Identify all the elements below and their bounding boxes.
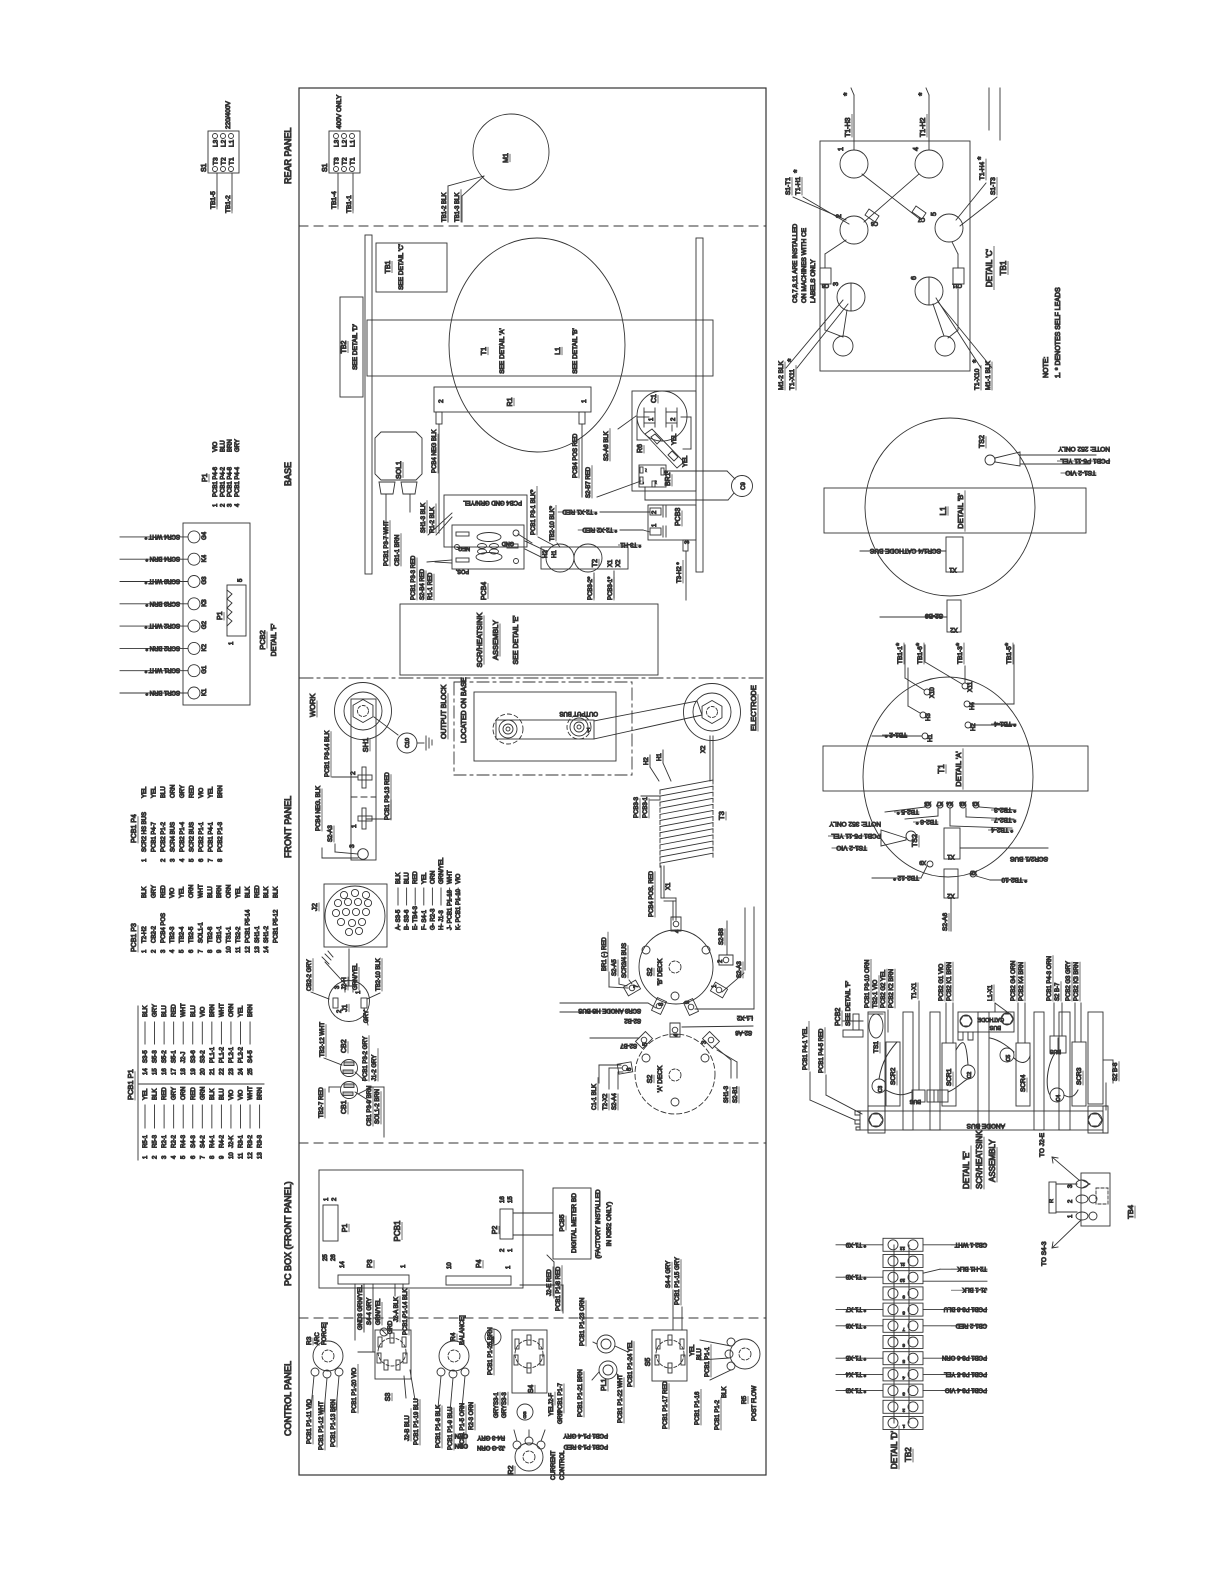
bus and diode blocks (detail E) [909,1090,948,1104]
svg-text:C1: C1 [651,394,658,403]
svg-text:S2-A3: S2-A3 [737,961,743,978]
pilot lamp PL2 [580,1298,634,1387]
section divider REAR PANEL / BASE [299,225,766,227]
svg-text:PCB1 P5-14: PCB1 P5-14 [245,909,251,943]
svg-text:H2: H2 [644,757,650,765]
svg-text:SCR/HEATSINK: SCR/HEATSINK [475,613,484,668]
capacitor C9 [732,476,753,497]
svg-text:'A' DECK: 'A' DECK [657,1065,664,1092]
svg-text:PCB1 P3-5 YEL: PCB1 P3-5 YEL [943,1370,987,1376]
svg-text:ORN: ORN [455,1442,468,1448]
svg-text:B- S3-6: B- S3-6 [405,909,411,930]
svg-text:A- S3-5: A- S3-5 [396,909,402,930]
potentiometer R2 current control [455,1430,608,1480]
section label PC BOX (FRONT PANEL) [283,1181,293,1286]
svg-text:1: 1 [351,824,358,828]
svg-text:TB1-1: TB1-1 [897,646,904,664]
svg-text:X2: X2 [950,626,958,632]
svg-text:PCB1 P1-21 BRN: PCB1 P1-21 BRN [578,1369,584,1417]
svg-text:PCB1 P1-8 BLK: PCB1 P1-8 BLK [436,1405,442,1448]
svg-text:SOL1-1: SOL1-1 [198,922,204,943]
svg-text:T2-H2: T2-H2 [142,926,148,943]
svg-text:S5-2: S5-2 [162,1050,168,1063]
svg-text:DETAIL 'A': DETAIL 'A' [954,751,963,787]
svg-text:S5: S5 [645,1358,652,1367]
svg-text:GRY: GRY [494,1405,500,1418]
transformer T2 [541,544,628,572]
scr SCR2 body [886,1042,900,1106]
svg-text:R4-3 GRY: R4-3 GRY [477,1434,505,1440]
table PCB1 P4 wire list [131,785,224,862]
wire label S2 B-8 [1103,1060,1119,1110]
wire TB2-10 BLK to J1 [367,958,382,999]
svg-text:P4: P4 [476,1259,483,1268]
svg-text:R4-2: R4-2 [219,1134,225,1148]
svg-text:BLK: BLK [722,1387,728,1398]
connector J2 [310,884,387,947]
capacitor C2 [961,1065,975,1079]
terminal block TB1 (see detail C) [376,243,447,292]
wire S2-A3 (deck B) [722,908,745,992]
svg-text:J1-2 GRY: J1-2 GRY [372,1055,378,1081]
TB1 terminal 1 [838,147,868,178]
svg-text:L2: L2 [221,139,228,147]
svg-text:PCB3-2*: PCB3-2* [588,576,594,600]
svg-text:PCB2 K3 BRN: PCB2 K3 BRN [1074,962,1080,1001]
svg-text:S3-2: S3-2 [200,1050,206,1063]
svg-text:T1-H1: T1-H1 [795,177,802,195]
pcb PCB5 digital meter board [513,1188,613,1259]
svg-text:C8: C8 [822,282,829,288]
switch S2 deck B [623,917,733,1015]
svg-text:PCB4 NEG BLK: PCB4 NEG BLK [432,430,438,473]
svg-text:PC BOX (FRONT PANEL): PC BOX (FRONT PANEL) [283,1181,293,1286]
svg-text:3: 3 [349,844,356,848]
svg-text:YEL: YEL [672,433,678,445]
svg-text:VIO: VIO [239,1089,245,1100]
rotary switch S3 [352,1330,420,1445]
svg-text:PCB1 P1-14 BLK: PCB1 P1-14 BLK [403,1289,409,1335]
svg-text:SH1-2: SH1-2 [264,925,270,943]
scr SCR1 body [942,1043,956,1106]
svg-text:1: 1 [838,147,845,151]
svg-text:P3: P3 [367,1259,374,1268]
wires H2/H1 to T3 [644,736,713,781]
wires PCB1 P3-2 GRY / J1-2 GRY from CB2 [355,1036,378,1081]
TB1 terminal 2 [836,214,868,244]
svg-text:PCB1 P3-13 RED: PCB1 P3-13 RED [385,772,391,820]
svg-text:VIO: VIO [229,1089,235,1100]
svg-text:SCR2 HS BUS: SCR2 HS BUS [142,812,148,852]
svg-text:PCB2 K4 BRN: PCB2 K4 BRN [1019,962,1025,1001]
svg-text:PCB1 P1-11 VIO: PCB1 P1-11 VIO [307,1399,313,1444]
svg-text:C2: C2 [967,1072,973,1079]
svg-text:PCB1 P3-2 GRY: PCB1 P3-2 GRY [363,1036,369,1081]
wires TB2-5* TB2-8* TB2-3* TB2-7* TB2-4* [885,806,1016,833]
svg-text:R2: R2 [508,1465,515,1474]
note denotes self leads [1043,287,1062,378]
wire R1-1 PCB4 POS RED [573,424,592,498]
svg-text:BRN: BRN [217,885,223,898]
C1/R6/BR1 cluster enclosure [632,391,696,491]
svg-text:PCB1 P1-24 YEL: PCB1 P1-24 YEL [628,1340,634,1387]
svg-text:220/400V: 220/400V [225,101,232,129]
svg-text:CB1-1 BRN: CB1-1 BRN [395,535,401,566]
svg-text:22: 22 [219,1068,225,1075]
label DETAIL E / SCR-HEATSINK ASSEMBLY [962,1130,997,1189]
svg-text:PL2-2: PL2-2 [239,1046,245,1063]
svg-text:SEE DETAIL 'E': SEE DETAIL 'E' [513,616,520,665]
svg-text:PCB1 P5-12: PCB1 P5-12 [274,909,280,943]
svg-text:H1: H1 [928,734,934,742]
svg-text:WHT: WHT [219,1003,225,1017]
terminal X10 with wire TB1-1* [895,643,936,698]
svg-text:ORN: ORN [227,885,233,898]
svg-text:CB1-1: CB1-1 [217,925,223,943]
svg-text:1: 1 [581,399,588,403]
wire label T1-X1 [912,982,919,1090]
svg-text:PCB1 P4-6: PCB1 P4-6 [213,466,219,497]
svg-text:10: 10 [899,1278,905,1283]
svg-text:P1: P1 [342,1224,349,1233]
pcb PCB1 outline [319,1170,523,1288]
wire labels PCB1 P4-1 YEL / PCB1 P4-5 RED [803,1021,862,1120]
svg-text:E- TB4-3: E- TB4-3 [413,905,419,930]
wires SCR3 ANODE HS BUS / S2-B2 [560,1003,656,1023]
detail B band rectangle [824,488,1086,533]
svg-text:REAR PANEL: REAR PANEL [283,128,293,184]
rotary switch S4 [485,1327,564,1424]
svg-text:*: * [895,643,904,646]
svg-text:P2: P2 [492,1226,499,1235]
svg-text:11: 11 [239,1152,245,1159]
wire labels above detail E (left group) [865,959,895,1032]
section divider FRONT PANEL / PC BOX [299,1142,766,1144]
svg-text:T1-X11: T1-X11 [789,369,796,390]
wire PCB4 POS. RED / X1 from T3 bottom [649,866,676,920]
pcb PCB2 detail F box with gate/cathode terminals [183,523,250,705]
wires CB1 to divider [358,1087,384,1137]
svg-text:PCB1 P1-3 RED: PCB1 P1-3 RED [563,1443,608,1449]
svg-text:T3: T3 [334,157,341,165]
switch S1 (220/400V table, rear panel external) [201,101,239,213]
svg-text:GRN/YEL: GRN/YEL [353,963,359,990]
svg-text:DETAIL 'B': DETAIL 'B' [956,493,965,529]
svg-text:R: R [1049,1199,1055,1203]
terminal X2 (detail A) S2-A6 [942,869,958,931]
svg-text:* T1-X3: * T1-X3 [845,1387,866,1393]
svg-text:C10: C10 [405,738,411,748]
svg-text:TB2-12 *: TB2-12 * [893,874,919,881]
svg-text:* T2-X1 RED: * T2-X1 RED [562,508,597,514]
svg-text:5: 5 [931,212,938,216]
svg-text:ORN: ORN [171,785,177,798]
thermostat TS2 (detail A) [828,820,919,851]
svg-text:BLU: BLU [191,1005,197,1017]
transformer T1 core circle [449,238,625,452]
svg-text:PCB2 K2 BRN: PCB2 K2 BRN [889,969,895,1008]
svg-text:X1: X1 [949,566,957,572]
svg-text:26: 26 [331,1254,337,1261]
svg-text:L3: L3 [334,139,341,147]
svg-text:TB1-5: TB1-5 [1006,646,1013,664]
svg-text:S3-3: S3-3 [502,1392,508,1405]
svg-text:NOTE:: NOTE: [1043,357,1050,378]
svg-text:GRY: GRY [153,1004,159,1017]
svg-text:PCB1 P4: PCB1 P4 [131,814,138,843]
svg-text:PCB5: PCB5 [559,1214,566,1231]
svg-text:* TB1-4: * TB1-4 [994,720,1016,727]
svg-text:PCB1 P1-4 GRY: PCB1 P1-4 GRY [563,1432,608,1438]
capacitor C10 and ground [374,717,432,753]
svg-text:H2: H2 [543,550,549,558]
terminals X5 X7 X4 X6 X3 (detail A secondary) [924,800,979,808]
svg-text:24: 24 [239,1068,245,1075]
svg-text:S2-A3: S2-A3 [328,825,334,842]
svg-text:PCB1 P1-9 BLU: PCB1 P1-9 BLU [448,1407,454,1450]
section label CONTROL PANEL [283,1361,293,1436]
svg-text:TS2: TS2 [979,435,986,448]
wires SH1-3 / S2-B1 from deck A [714,1046,739,1103]
svg-text:TB2-8: TB2-8 [208,926,214,943]
svg-text:J2-B BLU: J2-B BLU [405,1415,411,1441]
svg-text:C5: C5 [1006,1055,1012,1062]
svg-text:BLU: BLU [220,440,226,452]
svg-text:BRN: BRN [258,1087,264,1100]
svg-text:T2: T2 [592,559,599,567]
svg-text:GND3 GRN/YEL: GND3 GRN/YEL [358,1285,364,1330]
svg-text:CURRENT: CURRENT [551,1450,557,1480]
svg-text:SCR3 BRN *: SCR3 BRN * [145,600,180,606]
svg-text:R2-2: R2-2 [172,1134,178,1148]
svg-text:S2-B7: S2-B7 [620,1042,637,1048]
svg-text:4: 4 [913,147,920,151]
wire labels PCB3-2* / PCB3-1* [588,571,614,600]
legend list A-K (J2 wires) [396,857,462,930]
potentiometer R5 post flow [663,1338,760,1429]
svg-text:PCB1 P4-7: PCB1 P4-7 [152,821,158,852]
wire S2-B8 [719,921,727,955]
svg-text:SCR1 BRN *: SCR1 BRN * [145,689,180,695]
svg-text:PCB2 P1-2: PCB2 P1-2 [161,821,167,852]
terminal block TB2 (see detail D) [340,297,363,397]
svg-text:PCB1 P1-7: PCB1 P1-7 [558,1382,564,1413]
svg-text:BLK: BLK [210,1089,216,1100]
capacitor C3 [872,1079,886,1093]
svg-text:PCB2: PCB2 [258,630,267,650]
svg-text:BRN: BRN [248,1004,254,1017]
switch S1 (400V ONLY, inside rear panel) [322,94,360,213]
svg-text:S4-3: S4-3 [191,1135,197,1148]
svg-text:S2-A5: S2-A5 [612,959,618,976]
svg-text:400V ONLY: 400V ONLY [336,94,343,129]
terminal strip TB2 detail D [883,1238,923,1429]
terminal H2 with wire TB1-4* [965,720,1016,731]
terminal H3 [908,668,932,721]
svg-text:TB1: TB1 [385,260,392,273]
wire GRY from J1-1 [364,1008,370,1025]
svg-text:C4: C4 [1056,1095,1062,1102]
label DETAIL D TB2 [890,1426,913,1469]
svg-text:BLK: BLK [396,873,402,884]
svg-text:TB2-5: TB2-5 [189,926,195,943]
svg-text:*: * [915,643,924,646]
svg-text:BLK: BLK [153,1089,159,1100]
svg-text:TB1-5: TB1-5 [210,191,217,209]
svg-text:YEL: YEL [143,1088,149,1100]
svg-text:S4: S4 [528,1385,535,1394]
svg-text:R4: R4 [450,1332,457,1341]
svg-text:TB1-2 BLK: TB1-2 BLK [442,193,448,222]
cathode bus bar (detail E) [958,1012,1014,1040]
svg-text:TB2: TB2 [341,340,348,353]
svg-text:2: 2 [438,399,445,403]
svg-text:PCB1 P5-11 YEL: PCB1 P5-11 YEL [1060,457,1110,464]
svg-text:PCB1 P1-25 BRN: PCB1 P1-25 BRN [488,1327,494,1375]
svg-text:S4-4 GRY: S4-4 GRY [666,1261,672,1288]
terminal H4 with wire TB1-5* [964,643,1014,710]
svg-text:M1-2 BLK: M1-2 BLK [778,360,785,390]
svg-text:* T1-X8: * T1-X8 [845,1273,866,1279]
svg-text:SCR1/4 CATHODE BUS: SCR1/4 CATHODE BUS [869,547,941,554]
svg-text:PCB2 G3 GRY: PCB2 G3 GRY [1066,961,1072,1001]
wire label TB2-10 BLK* [550,505,560,547]
svg-text:YEL: YEL [142,786,148,798]
svg-text:BLU: BLU [697,1348,703,1360]
svg-text:25: 25 [323,1254,329,1261]
svg-text:TB1-4: TB1-4 [331,191,338,209]
svg-text:TS1: TS1 [873,1041,880,1053]
fan motor M1 [473,114,549,190]
TB1 terminal 4 [913,147,943,178]
svg-text:R3-3: R3-3 [258,1134,264,1148]
svg-text:YEL: YEL [152,786,158,798]
wire J2-H GRN/YEL with ground to J1 [322,949,359,990]
svg-text:VIO: VIO [456,873,462,884]
wire label PCB1 P3-14 BLK (work) [325,731,358,777]
svg-text:GRN/YEL: GRN/YEL [439,857,445,884]
svg-text:BRN: BRN [218,785,224,798]
svg-text:TS1-2 VIO: TS1-2 VIO [836,844,867,851]
inductor T3 coil [660,780,726,867]
svg-text:S3-1: S3-1 [494,1392,500,1405]
svg-text:T1: T1 [350,157,357,165]
svg-text:SEE DETAIL 'D': SEE DETAIL 'D' [352,324,359,370]
svg-text:PCB1 P4-2: PCB1 P4-2 [220,466,226,497]
svg-text:R4-1: R4-1 [210,1134,216,1148]
svg-text:PCB1 P1-1: PCB1 P1-1 [705,1346,711,1377]
svg-text:T1-H4: T1-H4 [979,162,986,180]
wire terminal 6 to plain terminal [933,304,944,336]
svg-text:H- J1-3: H- J1-3 [439,910,445,930]
svg-text:PCB4: PCB4 [481,582,488,600]
svg-text:* TB2-4: * TB2-4 [991,826,1013,833]
wire labels PCB2 G1 / K1 [939,962,953,1043]
svg-text:T1: T1 [481,347,488,355]
svg-text:PCB1 P3: PCB1 P3 [131,923,138,952]
svg-text:WHT: WHT [248,1086,254,1100]
svg-text:WHT: WHT [198,884,204,898]
svg-text:GRY: GRY [235,439,241,452]
svg-text:PCB1 P4-8: PCB1 P4-8 [228,466,234,497]
svg-text:~: ~ [654,480,660,484]
TB1 terminal 3 [833,282,865,311]
svg-text:SCR2 BRN *: SCR2 BRN * [145,644,180,650]
svg-text:M1-1 BLK: M1-1 BLK [985,360,992,390]
svg-text:GRY: GRY [180,785,186,798]
svg-text:GRY: GRY [151,885,157,898]
resistor R1 [434,387,591,424]
svg-text:CB2: CB2 [341,1039,348,1053]
scr/heatsink assembly outline (base) [400,604,658,675]
svg-text:S1-T1: S1-T1 [785,177,792,195]
svg-text:SOL1-2 BRN: SOL1-2 BRN [375,1089,381,1124]
svg-text:SCR2 WHT *: SCR2 WHT * [144,622,180,628]
svg-text:X6: X6 [959,800,966,806]
svg-text:T3-H2 *: T3-H2 * [677,562,683,583]
svg-text:19: 19 [191,1068,197,1075]
scr SCR4 body [1016,1043,1030,1106]
svg-text:NEG.: NEG. [456,545,470,551]
svg-text:VIO: VIO [213,441,219,452]
svg-text:K3: K3 [202,599,208,607]
svg-text:YEL: YEL [180,886,186,898]
svg-text:23: 23 [229,1068,235,1075]
svg-text:C7: C7 [918,216,925,222]
svg-text:S2 B-7: S2 B-7 [1055,982,1061,1001]
svg-text:BRN: BRN [210,1004,216,1017]
svg-text:ORN: ORN [229,1004,235,1017]
svg-text:DETAIL 'E': DETAIL 'E' [962,1151,971,1189]
svg-text:ANODE BUS: ANODE BUS [966,1122,1005,1129]
svg-text:13: 13 [255,946,261,953]
svg-text:RED: RED [162,1087,168,1100]
svg-text:S2: S2 [647,1075,654,1084]
wires M1-2 BLK / T1-X11 to terminal 3 [778,300,848,390]
svg-text:L3: L3 [213,139,220,147]
svg-text:PCB1 P3-7 WHT: PCB1 P3-7 WHT [384,520,390,566]
svg-text:POST FLOW: POST FLOW [752,1385,758,1421]
svg-text:J2-E RED: J2-E RED [547,1269,553,1296]
svg-text:J- PCB1 P1-18: J- PCB1 P1-18 [448,889,454,930]
connector P3 (PCB1) [338,1259,409,1284]
svg-text:ON MACHINES WITH CE: ON MACHINES WITH CE [801,227,808,303]
svg-text:2: 2 [350,771,357,775]
svg-text:S1: S1 [322,163,329,172]
svg-text:T2-X2: T2-X2 [603,1093,609,1110]
svg-text:TB2-10 BLK*: TB2-10 BLK* [550,505,556,541]
svg-text:R6: R6 [637,444,644,453]
svg-text:DETAIL 'F': DETAIL 'F' [271,624,278,657]
svg-text:BLK: BLK [245,887,251,898]
wire labels PCB2 G4 / K4 [1011,961,1025,1043]
svg-text:RED: RED [190,785,196,798]
svg-text:TB1-1: TB1-1 [346,195,353,213]
svg-text:WORK: WORK [308,694,317,717]
svg-text:S2-B7 RED: S2-B7 RED [586,466,592,498]
svg-text:PCB3-1*: PCB3-1* [608,576,614,600]
section label FRONT PANEL [283,796,293,858]
svg-text:C6: C6 [871,220,878,226]
svg-text:SH1-3 BLK: SH1-3 BLK [421,503,427,533]
detail E heatsink fin bars [868,1012,1103,1133]
svg-text:S2 B-8: S2 B-8 [1113,1062,1119,1081]
svg-text:21: 21 [210,1068,216,1075]
svg-text:X2: X2 [947,892,955,898]
svg-text:R2-3 ORN: R2-3 ORN [469,1402,475,1430]
svg-text:14: 14 [264,946,270,953]
wires SH1-3 BLK / R1-2 BLK to PCB4 [421,501,452,535]
